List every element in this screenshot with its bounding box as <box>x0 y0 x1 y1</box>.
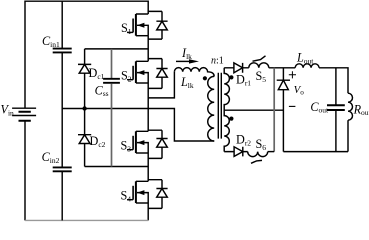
svg-text:n:1: n:1 <box>211 56 224 67</box>
